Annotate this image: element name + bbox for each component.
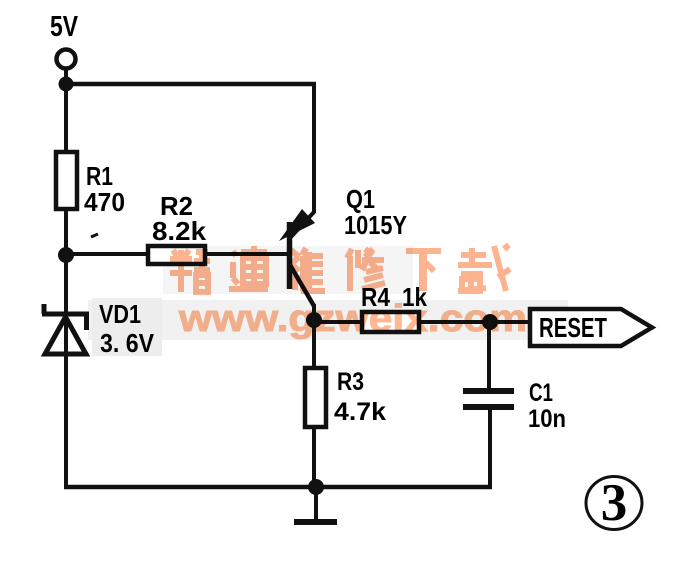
watermark row1 chinese characters [170, 245, 510, 292]
wire collector vertical [312, 304, 316, 320]
char xia [406, 251, 441, 291]
wire node to R4 [314, 320, 362, 324]
resistor R3 [305, 368, 326, 427]
svg-text:8.2k: 8.2k [152, 216, 207, 246]
svg-text:C1: C1 [529, 379, 553, 407]
capacitor C1 [463, 388, 514, 410]
svg-text:3. 6V: 3. 6V [100, 328, 155, 358]
char jing [170, 250, 210, 292]
wire R1 bottom lead [64, 209, 68, 255]
node collector junction [306, 312, 322, 328]
svg-text:www.gzweix.com: www.gzweix.com [178, 298, 527, 340]
label 5V [50, 11, 79, 43]
label C1 [529, 379, 553, 407]
char xiu [347, 249, 385, 291]
wire bottom rail [64, 485, 492, 490]
speck artifact [91, 234, 98, 237]
wire base right [205, 252, 288, 256]
svg-text:4.7k: 4.7k [334, 398, 386, 426]
label R2 [160, 191, 193, 221]
label 4.7k [334, 398, 386, 426]
terminal 5V [57, 50, 76, 69]
node output junction [482, 314, 498, 330]
label R4 [361, 282, 390, 312]
wire R1 top lead [64, 84, 68, 153]
wire VD1 body through [64, 317, 68, 354]
node base junction [58, 247, 74, 263]
svg-text:10n: 10n [528, 405, 566, 433]
label 470 [84, 187, 125, 217]
node ground junction [308, 479, 324, 495]
svg-text:VD1: VD1 [99, 299, 141, 329]
char zai [458, 245, 510, 291]
wire node to RESET tag [490, 320, 530, 324]
wire VD1 bottom lead [64, 354, 68, 489]
label 8.2k [152, 216, 207, 246]
label R3 [337, 368, 364, 396]
svg-text:5V: 5V [50, 11, 79, 43]
svg-text:RESET: RESET [539, 312, 607, 343]
label VD1 [99, 299, 141, 329]
zener diode VD1 [42, 304, 89, 354]
wire R4 to node [419, 320, 490, 324]
ground [294, 487, 337, 522]
wire emitter drop [312, 82, 316, 213]
svg-text:470: 470 [84, 187, 125, 217]
resistor R2 [148, 246, 205, 264]
label 10n [528, 405, 566, 433]
RESET signal tag [530, 309, 652, 346]
wire terminal to junction [64, 69, 68, 84]
wire top rail [66, 82, 316, 87]
char wei [289, 248, 325, 291]
wire R3 bottom lead [312, 427, 316, 489]
wire C1 top lead [487, 322, 491, 389]
label Q1 [346, 184, 375, 214]
wire base left [66, 252, 149, 256]
svg-text:3: 3 [601, 474, 628, 532]
watermark row2 url [178, 298, 527, 340]
char tong [229, 246, 268, 289]
wire VD1 top lead [64, 255, 68, 314]
node junction top-left [59, 77, 74, 92]
wire R3 top lead [312, 320, 316, 369]
resistor R4 [362, 312, 419, 332]
label 1015Y [344, 210, 407, 240]
svg-text:R3: R3 [337, 368, 364, 396]
figure number 3 circled [586, 474, 642, 532]
label 1k [402, 282, 427, 312]
faint scan band behind watermark [88, 246, 568, 356]
label 3.6V [100, 328, 155, 358]
transistor Q1 [279, 209, 315, 306]
label R1 [86, 161, 113, 191]
wire C1 bottom lead [488, 410, 492, 489]
svg-text:1015Y: 1015Y [344, 210, 407, 240]
resistor R1 [56, 152, 77, 209]
